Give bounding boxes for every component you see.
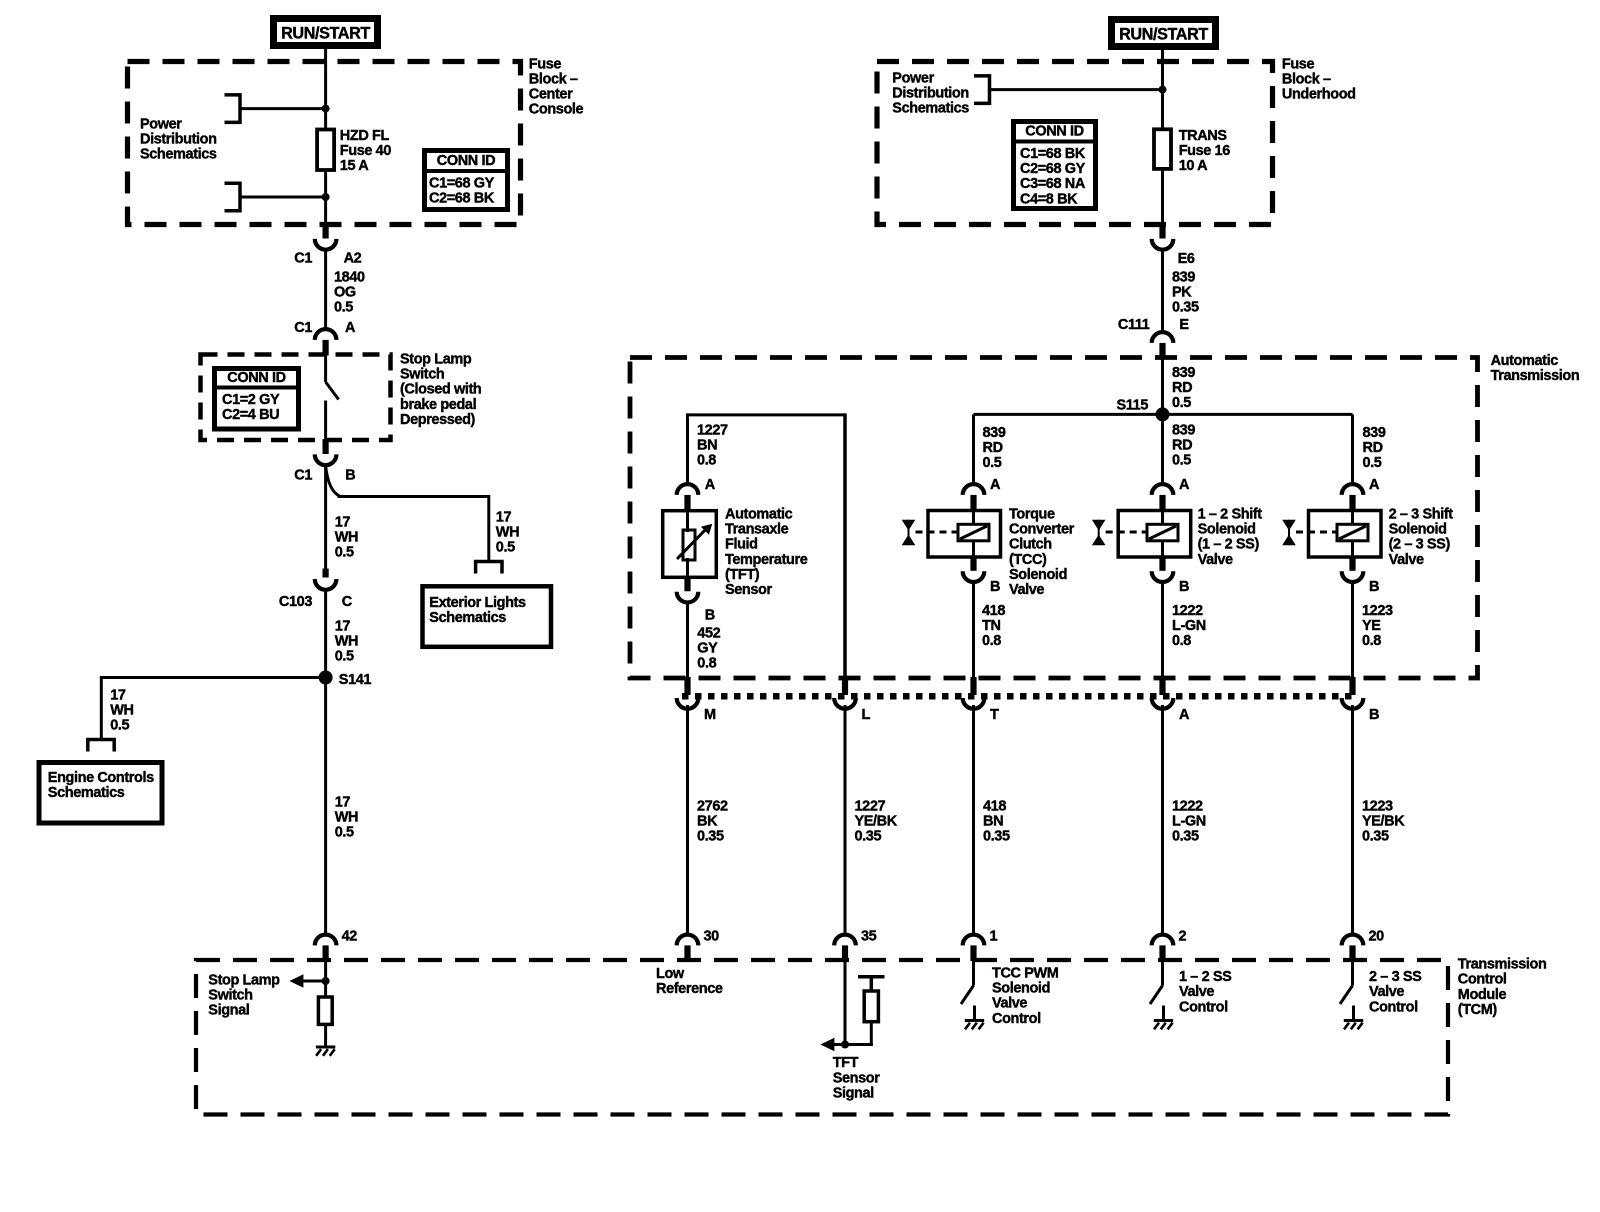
stop lamp signal line <box>303 980 326 983</box>
connector pin 35 into TCM <box>834 935 856 946</box>
svg-text:A: A <box>990 477 1001 493</box>
stop lamp switch contact lower <box>324 401 327 441</box>
wire 1227 BN to TFT A <box>686 413 689 486</box>
svg-text:C1=68 GY: C1=68 GY <box>429 176 495 192</box>
svg-text:1 – 2 Shift: 1 – 2 Shift <box>1198 507 1263 523</box>
svg-text:Transmission: Transmission <box>1491 368 1580 384</box>
chassis ground (stop lamp) <box>316 1046 335 1049</box>
svg-text:15 A: 15 A <box>340 158 369 174</box>
2-3 shift solenoid valve coil box <box>1337 524 1368 541</box>
TFT internal resistor lead <box>870 1022 873 1045</box>
svg-text:Fuse 40: Fuse 40 <box>340 143 392 159</box>
connector C1 pin B below switch <box>323 439 329 454</box>
svg-text:RUN/START: RUN/START <box>1119 25 1208 43</box>
svg-text:C3=68 NA: C3=68 NA <box>1020 176 1086 192</box>
inline connector C103 pin C <box>323 569 329 578</box>
svg-text:0.5: 0.5 <box>496 540 515 556</box>
svg-text:YE/BK: YE/BK <box>1362 814 1405 830</box>
svg-text:0.5: 0.5 <box>335 649 354 665</box>
wire C103 to S141 <box>324 588 327 678</box>
svg-text:TN: TN <box>982 618 1001 634</box>
connector C1 pin A into stop lamp switch <box>315 329 337 340</box>
connector pin A TCC solenoid valve <box>963 484 985 495</box>
svg-text:17: 17 <box>335 795 351 811</box>
svg-text:0.8: 0.8 <box>982 633 1001 649</box>
svg-text:(TCC): (TCC) <box>1009 552 1047 568</box>
svg-text:0.8: 0.8 <box>697 656 716 672</box>
svg-text:Control: Control <box>1179 999 1228 1015</box>
svg-text:Reference: Reference <box>656 981 723 997</box>
TFT wire inside top <box>686 510 689 532</box>
tft loop top wire <box>688 413 846 416</box>
TCM driver contact 1-2 SS <box>1161 960 1164 986</box>
svg-text:Block –: Block – <box>529 72 578 88</box>
svg-text:C1=68 BK: C1=68 BK <box>1020 146 1086 162</box>
svg-text:Solenoid: Solenoid <box>1009 567 1067 583</box>
svg-text:Engine Controls: Engine Controls <box>48 770 154 786</box>
wire 452 GY <box>686 601 689 679</box>
svg-text:TFT: TFT <box>833 1055 859 1071</box>
connector stub B through case <box>1349 677 1355 695</box>
svg-text:0.8: 0.8 <box>1362 633 1381 649</box>
TFT internal bias stub <box>870 977 874 991</box>
2-3 shift solenoid valve wire inside top <box>1351 510 1354 525</box>
valve dashed link 1-2 shift solenoid valve <box>1106 531 1147 534</box>
svg-text:CONN ID: CONN ID <box>1025 124 1083 140</box>
svg-text:B: B <box>990 579 1000 595</box>
svg-text:0.5: 0.5 <box>335 825 354 841</box>
svg-text:A: A <box>705 477 716 493</box>
svg-text:C2=68 BK: C2=68 BK <box>429 191 495 207</box>
connector stub A through case <box>1159 677 1165 695</box>
svg-text:0.8: 0.8 <box>1172 633 1191 649</box>
svg-text:Automatic: Automatic <box>725 507 793 523</box>
conn id table C1=68 GY C2=68 BK <box>425 151 508 210</box>
svg-text:0.5: 0.5 <box>1363 455 1382 471</box>
contact bracket power distribution (right) <box>974 74 990 78</box>
svg-text:Signal: Signal <box>208 1003 249 1019</box>
svg-text:Valve: Valve <box>992 996 1027 1012</box>
svg-text:B: B <box>1369 707 1379 723</box>
goto bracket exterior lights <box>474 560 504 564</box>
wire RUN/START right down <box>1161 48 1164 129</box>
connector pin A 2-3 shift solenoid valve <box>1342 484 1364 495</box>
wire 839 PK <box>1161 249 1164 331</box>
svg-text:0.35: 0.35 <box>697 829 724 845</box>
svg-text:Stop Lamp: Stop Lamp <box>400 352 472 368</box>
valve bowtie TCC solenoid valve <box>902 520 916 531</box>
svg-text:Solenoid: Solenoid <box>1389 522 1447 538</box>
svg-text:0.35: 0.35 <box>855 829 882 845</box>
svg-text:C103: C103 <box>279 594 312 610</box>
svg-text:20: 20 <box>1369 929 1385 945</box>
svg-text:Block –: Block – <box>1282 72 1331 88</box>
wire bracket to main (right) <box>990 88 1163 91</box>
svg-text:Fuse: Fuse <box>529 56 562 72</box>
TFT internal resistor <box>864 991 878 1022</box>
svg-text:BN: BN <box>697 438 717 454</box>
svg-text:C1: C1 <box>294 320 312 336</box>
svg-text:Underhood: Underhood <box>1282 87 1356 103</box>
wire 1222 down <box>1161 581 1164 680</box>
svg-text:1222: 1222 <box>1172 603 1203 619</box>
TFT thermistor body <box>683 530 695 560</box>
svg-text:A: A <box>1179 477 1190 493</box>
1-2 shift solenoid valve wire inside bottom <box>1161 541 1164 559</box>
connector pin 30 into TCM <box>677 935 699 946</box>
TFT sensor signal arrow <box>820 1038 834 1052</box>
svg-text:839: 839 <box>1363 425 1386 441</box>
svg-text:Valve: Valve <box>1369 984 1404 1000</box>
engine controls schematics box <box>39 763 162 824</box>
svg-text:B: B <box>1179 579 1189 595</box>
fuse block underhood dashed box <box>877 62 1273 225</box>
wire C111 to S115 <box>1161 358 1164 415</box>
TCC solenoid valve coil diagonal <box>960 526 987 539</box>
TCM driver contact TCC PWM <box>972 960 975 986</box>
TCM pulldown resistor (stop lamp) <box>318 997 332 1024</box>
svg-text:0.35: 0.35 <box>983 829 1010 845</box>
wire down from C1 B <box>324 464 327 569</box>
wire 418 TN down <box>972 581 975 680</box>
svg-text:Module: Module <box>1458 987 1507 1003</box>
svg-text:1227: 1227 <box>855 799 886 815</box>
chassis ground (TCC PWM) <box>965 1019 984 1022</box>
svg-text:Distribution: Distribution <box>892 86 969 102</box>
svg-text:C2=4 BU: C2=4 BU <box>222 407 279 423</box>
svg-text:Schematics: Schematics <box>48 785 125 801</box>
connector pin A 1-2 shift solenoid valve <box>1152 484 1174 495</box>
svg-text:B: B <box>1369 579 1379 595</box>
svg-text:Center: Center <box>529 87 573 103</box>
svg-text:418: 418 <box>983 799 1006 815</box>
connector cup pin M <box>677 698 699 709</box>
svg-text:T: T <box>990 707 999 723</box>
svg-text:RD: RD <box>1172 380 1192 396</box>
connector cup pin L <box>834 698 856 709</box>
wire 2762 BK <box>686 705 689 935</box>
connector pin B TCC solenoid valve <box>970 556 976 571</box>
svg-text:PK: PK <box>1172 285 1192 301</box>
wire engine controls drop <box>100 676 103 740</box>
svg-text:E6: E6 <box>1178 251 1195 267</box>
wire fuse to connector C1 <box>324 170 327 225</box>
svg-text:(2 – 3 SS): (2 – 3 SS) <box>1389 537 1451 553</box>
splice S141 <box>319 671 333 685</box>
svg-text:Exterior Lights: Exterior Lights <box>429 595 526 611</box>
svg-text:Sensor: Sensor <box>725 582 773 598</box>
connector C1 pin A2 <box>323 224 329 239</box>
TCM driver blade 1-2 SS <box>1150 986 1163 1005</box>
svg-text:Valve: Valve <box>1009 582 1044 598</box>
transmission control module dashed box <box>196 960 1448 1115</box>
TCM driver ground lead 2-3 SS <box>1352 1006 1355 1021</box>
svg-text:Fluid: Fluid <box>725 537 758 553</box>
svg-text:1223: 1223 <box>1362 799 1393 815</box>
svg-text:17: 17 <box>335 515 351 531</box>
conn id table C1=2 GY C2=4 BU <box>215 369 299 430</box>
TCC solenoid valve coil box <box>958 524 989 541</box>
chassis ground (1-2 SS) <box>1154 1019 1173 1022</box>
svg-text:WH: WH <box>335 810 358 826</box>
svg-text:C1=2 GY: C1=2 GY <box>222 392 280 408</box>
connector pin 20 into TCM <box>1342 935 1364 946</box>
svg-text:A: A <box>1179 707 1190 723</box>
chassis ground (2-3 SS) <box>1344 1019 1363 1022</box>
valve dashed link 2-3 shift solenoid valve <box>1296 531 1337 534</box>
svg-text:(1 – 2 SS): (1 – 2 SS) <box>1198 537 1260 553</box>
svg-text:Valve: Valve <box>1179 984 1214 1000</box>
svg-text:C1: C1 <box>294 251 312 267</box>
transmission pass-through connector row <box>682 693 1358 700</box>
svg-text:0.5: 0.5 <box>1172 453 1191 469</box>
svg-text:Solenoid: Solenoid <box>992 981 1050 997</box>
svg-text:Signal: Signal <box>833 1085 874 1101</box>
wire 418 BN <box>972 705 975 935</box>
connector pin B 1-2 shift solenoid valve <box>1159 556 1165 571</box>
svg-text:839: 839 <box>1172 269 1195 285</box>
wire S141 to engine controls branch <box>101 676 325 679</box>
svg-text:RUN/START: RUN/START <box>281 24 370 42</box>
svg-text:1222: 1222 <box>1172 799 1203 815</box>
svg-text:C4=8 BK: C4=8 BK <box>1020 191 1078 207</box>
stop lamp switch blade <box>326 382 339 400</box>
wire 1222 L-GN 0.35 <box>1161 705 1164 935</box>
svg-text:Transaxle: Transaxle <box>725 522 789 538</box>
svg-text:S115: S115 <box>1117 397 1149 413</box>
svg-text:839: 839 <box>1172 423 1195 439</box>
svg-text:Depressed): Depressed) <box>400 412 476 428</box>
svg-text:1840: 1840 <box>334 269 365 285</box>
connector pin 42 into TCM <box>315 935 337 946</box>
svg-text:Switch: Switch <box>208 988 252 1004</box>
svg-text:Power: Power <box>140 116 182 132</box>
svg-text:C1: C1 <box>294 468 312 484</box>
svg-text:C111: C111 <box>1118 317 1150 333</box>
svg-text:Distribution: Distribution <box>140 132 217 148</box>
1-2 shift solenoid valve outer box <box>1118 511 1191 558</box>
1-2 shift solenoid valve coil box <box>1147 524 1178 541</box>
wire 1223 down <box>1351 581 1354 680</box>
2-3 shift solenoid valve coil diagonal <box>1339 526 1366 539</box>
svg-text:brake pedal: brake pedal <box>400 397 476 413</box>
contact bracket upper (power distribution feed) <box>225 93 241 97</box>
connector pin 1 into TCM <box>963 935 985 946</box>
svg-text:17: 17 <box>110 688 126 704</box>
wire upper bracket to node <box>240 107 326 110</box>
junction stop lamp signal <box>322 977 330 985</box>
svg-text:839: 839 <box>983 425 1006 441</box>
wire pin 35 into TCM <box>844 960 847 1045</box>
svg-text:17: 17 <box>496 510 512 526</box>
TCM driver blade 2-3 SS <box>1340 986 1353 1005</box>
svg-text:Schematics: Schematics <box>140 147 217 163</box>
svg-text:CONN ID: CONN ID <box>227 370 285 386</box>
svg-text:WH: WH <box>496 525 519 541</box>
svg-text:BN: BN <box>983 814 1003 830</box>
svg-text:L: L <box>862 707 871 723</box>
svg-text:452: 452 <box>697 626 720 642</box>
connector cup pin B <box>1342 698 1364 709</box>
svg-text:WH: WH <box>335 634 358 650</box>
svg-text:0.5: 0.5 <box>1172 395 1191 411</box>
svg-text:WH: WH <box>110 703 133 719</box>
svg-text:2: 2 <box>1179 929 1187 945</box>
svg-text:C: C <box>342 594 353 610</box>
svg-text:Clutch: Clutch <box>1009 537 1052 553</box>
valve dashed link TCC solenoid valve <box>916 531 959 534</box>
wire lower bracket to node <box>240 196 326 199</box>
TFT sensor box <box>663 511 717 578</box>
svg-text:A: A <box>1369 477 1380 493</box>
TCM driver contact 2-3 SS <box>1351 960 1354 986</box>
wire 1227 drop to L <box>843 413 847 679</box>
TCC solenoid valve wire inside bottom <box>972 541 975 559</box>
svg-text:2 – 3 Shift: 2 – 3 Shift <box>1389 507 1454 523</box>
svg-text:2 – 3 SS: 2 – 3 SS <box>1369 969 1422 985</box>
automatic transmission dashed box <box>630 358 1478 679</box>
wire RUN/START to fuse HZD FL <box>324 49 327 130</box>
valve bowtie 1-2 shift solenoid valve <box>1092 520 1106 531</box>
power feed label RUN/START (left) <box>274 19 378 46</box>
svg-text:C2=68 GY: C2=68 GY <box>1020 161 1086 177</box>
svg-text:(TCM): (TCM) <box>1458 1002 1498 1018</box>
exterior lights schematics box <box>423 586 552 647</box>
svg-text:10 A: 10 A <box>1179 158 1208 174</box>
svg-text:Stop Lamp: Stop Lamp <box>208 973 280 989</box>
connector pin B 2-3 shift solenoid valve <box>1349 556 1355 571</box>
svg-text:Fuse: Fuse <box>1282 56 1315 72</box>
connector stub M through case <box>684 677 690 695</box>
valve bowtie 2-3 shift solenoid valve <box>1282 520 1296 531</box>
svg-text:1223: 1223 <box>1362 603 1393 619</box>
fuse TRANS 10A <box>1154 129 1171 169</box>
TCC solenoid valve wire inside top <box>972 510 975 525</box>
splice S115 <box>1156 407 1170 421</box>
svg-text:Torque: Torque <box>1009 507 1055 523</box>
svg-text:42: 42 <box>342 929 358 945</box>
wire pin 42 into TCM <box>324 960 327 997</box>
stop lamp signal arrow <box>289 974 303 988</box>
svg-text:Switch: Switch <box>400 367 444 383</box>
wire branch to exterior lights corner <box>338 495 489 498</box>
svg-text:B: B <box>345 468 355 484</box>
svg-text:0.35: 0.35 <box>1172 300 1199 316</box>
wire 1223 YE/BK 0.35 <box>1351 705 1354 935</box>
connector C111 pin E <box>1152 332 1174 343</box>
svg-text:OG: OG <box>334 285 356 301</box>
fuse block center console dashed box <box>128 62 521 225</box>
svg-text:Sensor: Sensor <box>833 1070 881 1086</box>
branch curve to exterior lights <box>326 466 341 497</box>
stop lamp switch contact upper <box>324 355 327 383</box>
power feed label RUN/START (right) <box>1112 20 1216 47</box>
svg-text:WH: WH <box>335 530 358 546</box>
svg-text:B: B <box>705 608 715 624</box>
svg-text:2762: 2762 <box>697 799 728 815</box>
svg-text:Converter: Converter <box>1009 522 1075 538</box>
svg-text:35: 35 <box>861 929 877 945</box>
connector pin 2 into TCM <box>1152 935 1174 946</box>
connector TFT pin A <box>677 484 699 495</box>
2-3 shift solenoid valve outer box <box>1309 511 1382 558</box>
1-2 shift solenoid valve coil diagonal <box>1149 526 1176 539</box>
svg-text:A2: A2 <box>344 251 362 267</box>
svg-text:RD: RD <box>1172 438 1192 454</box>
conn id table C1=68 BK C2=68 GY C3=68 NA C4=8 BK <box>1014 122 1096 209</box>
svg-text:Power: Power <box>892 70 934 86</box>
svg-text:TCC PWM: TCC PWM <box>992 966 1059 982</box>
wire S141 to TCM pin 42 <box>324 678 327 935</box>
svg-text:TRANS: TRANS <box>1179 128 1228 144</box>
junction node at fuse top <box>322 105 330 113</box>
connector stub L through case <box>842 677 848 695</box>
svg-text:(TFT): (TFT) <box>725 567 760 583</box>
TCM driver blade TCC PWM <box>961 986 974 1005</box>
wire 1227 YE/BK <box>844 705 847 935</box>
bus S115 to solenoids <box>974 413 1353 416</box>
svg-text:Schematics: Schematics <box>892 101 969 117</box>
svg-text:839: 839 <box>1172 365 1195 381</box>
svg-text:GY: GY <box>697 641 718 657</box>
svg-text:0.5: 0.5 <box>110 718 129 734</box>
goto bracket engine controls <box>86 738 116 742</box>
svg-text:Automatic: Automatic <box>1491 353 1559 369</box>
svg-text:1: 1 <box>990 929 998 945</box>
svg-text:1 – 2 SS: 1 – 2 SS <box>1179 969 1232 985</box>
TFT variable arrow <box>677 527 708 559</box>
svg-text:Temperature: Temperature <box>725 552 808 568</box>
svg-text:Control: Control <box>992 1011 1041 1027</box>
svg-text:RD: RD <box>1363 440 1383 456</box>
svg-text:0.35: 0.35 <box>1362 829 1389 845</box>
connector pin E6 <box>1159 224 1165 239</box>
wire 839 RD to 2-3 shift solenoid valve <box>1351 414 1354 486</box>
TCC solenoid valve outer box <box>928 511 1001 558</box>
svg-text:HZD FL: HZD FL <box>340 128 390 144</box>
TFT wire inside bottom <box>686 558 689 578</box>
svg-text:Fuse 16: Fuse 16 <box>1179 143 1231 159</box>
TFT internal bias bar <box>858 975 885 979</box>
svg-text:30: 30 <box>704 929 720 945</box>
svg-text:YE/BK: YE/BK <box>855 814 898 830</box>
svg-text:Valve: Valve <box>1389 552 1424 568</box>
svg-text:M: M <box>704 707 716 723</box>
connector stub T through case <box>970 677 976 695</box>
connector cup pin A <box>1152 698 1174 709</box>
svg-text:Low: Low <box>656 966 685 982</box>
connector cup pin T <box>963 698 985 709</box>
wire exterior lights drop <box>487 495 490 562</box>
svg-text:0.35: 0.35 <box>1172 829 1199 845</box>
svg-text:L-GN: L-GN <box>1172 814 1206 830</box>
fuse HZD FL 15A <box>317 130 334 171</box>
svg-text:0.5: 0.5 <box>983 455 1002 471</box>
wire 839 RD to TCC solenoid valve <box>972 414 975 486</box>
svg-text:Console: Console <box>529 102 584 118</box>
TCM driver ground lead 1-2 SS <box>1162 1006 1165 1021</box>
wire 839 RD to 1-2 shift solenoid valve <box>1161 414 1164 486</box>
junction pin35/resistor <box>841 1041 849 1049</box>
svg-text:418: 418 <box>982 603 1005 619</box>
svg-text:S141: S141 <box>339 672 372 688</box>
svg-text:A: A <box>345 320 356 336</box>
svg-text:0.8: 0.8 <box>697 453 716 469</box>
svg-text:RD: RD <box>983 440 1003 456</box>
stop lamp switch dashed box <box>201 355 391 441</box>
TCM driver ground lead TCC PWM <box>973 1006 976 1021</box>
svg-text:Valve: Valve <box>1198 552 1233 568</box>
